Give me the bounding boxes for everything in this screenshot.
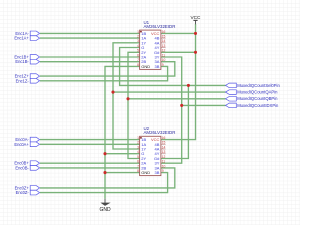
- svg-text:3B: 3B: [154, 170, 159, 175]
- svg-text:1: 1: [137, 30, 139, 34]
- svg-text:MuxedIQCountQAPin: MuxedIQCountQAPin: [237, 90, 278, 95]
- svg-text:GND: GND: [141, 64, 150, 69]
- svg-text:AM26LV32EIDR: AM26LV32EIDR: [144, 24, 176, 29]
- svg-text:Enc1A+: Enc1A+: [14, 36, 29, 41]
- svg-text:10: 10: [162, 164, 166, 168]
- svg-text:12: 12: [162, 49, 166, 53]
- svg-text:10: 10: [162, 58, 166, 62]
- svg-text:4: 4: [137, 44, 139, 48]
- svg-text:Enc0B-: Enc0B-: [15, 165, 29, 170]
- svg-text:Enc1Z-: Enc1Z-: [16, 78, 30, 83]
- svg-text:11: 11: [162, 53, 166, 57]
- svg-text:AM26LV32EIDR: AM26LV32EIDR: [144, 130, 176, 135]
- svg-text:6: 6: [137, 160, 139, 164]
- svg-text:9: 9: [162, 63, 164, 67]
- svg-text:1: 1: [137, 136, 139, 140]
- svg-text:GND: GND: [141, 170, 150, 175]
- svg-text:11: 11: [162, 160, 166, 164]
- svg-text:6: 6: [137, 53, 139, 57]
- svg-text:7: 7: [137, 58, 139, 62]
- svg-text:3: 3: [137, 145, 139, 149]
- svg-text:8: 8: [137, 63, 139, 67]
- svg-text:15: 15: [162, 141, 166, 145]
- svg-text:16: 16: [162, 136, 166, 140]
- svg-text:3B: 3B: [154, 64, 159, 69]
- svg-text:7: 7: [137, 164, 139, 168]
- svg-text:VCC: VCC: [191, 15, 202, 20]
- svg-text:12: 12: [162, 155, 166, 159]
- svg-text:13: 13: [162, 150, 166, 154]
- svg-text:MuxedIQCountIDXPin: MuxedIQCountIDXPin: [237, 103, 279, 108]
- svg-text:GND: GND: [99, 207, 111, 213]
- svg-text:8: 8: [137, 169, 139, 173]
- svg-text:13: 13: [162, 44, 166, 48]
- svg-text:15: 15: [162, 35, 166, 39]
- svg-text:3: 3: [137, 39, 139, 43]
- svg-text:Enc0A+: Enc0A+: [14, 142, 29, 147]
- svg-text:MuxedIQCountQBPin: MuxedIQCountQBPin: [237, 96, 278, 101]
- svg-text:14: 14: [162, 39, 166, 43]
- svg-text:16: 16: [162, 30, 166, 34]
- svg-text:2: 2: [137, 35, 139, 39]
- svg-text:5: 5: [137, 49, 139, 53]
- svg-text:Enc0Z-: Enc0Z-: [16, 190, 30, 195]
- svg-text:14: 14: [162, 145, 166, 149]
- svg-text:4: 4: [137, 150, 139, 154]
- svg-text:Enc1B-: Enc1B-: [15, 59, 29, 64]
- svg-text:5: 5: [137, 155, 139, 159]
- svg-text:MuxedIQCountSel0Pin: MuxedIQCountSel0Pin: [237, 83, 280, 88]
- svg-text:2: 2: [137, 141, 139, 145]
- svg-text:9: 9: [162, 169, 164, 173]
